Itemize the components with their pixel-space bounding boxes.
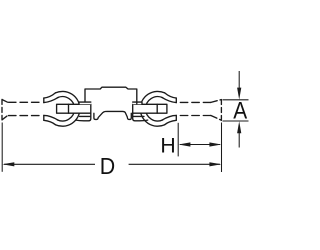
component: center bracket body bbox=[85, 87, 137, 104]
wire: right chain dashed bottom bbox=[180, 115, 211, 117]
arrowhead: A top (pointing down) bbox=[237, 88, 241, 100]
component: right pin collar step bbox=[133, 102, 142, 104]
wire: left jaw bottom outer edge bbox=[44, 120, 56, 124]
technical drawing: chain connecting link with dimensions A, H, D bbox=[0, 0, 250, 250]
wire: right flare top dashed bbox=[211, 100, 221, 103]
wire: right lower collar band bbox=[133, 115, 144, 117]
wire: dimension A lower leader bbox=[238, 128, 240, 148]
wire: right H/D extension line bbox=[221, 123, 223, 173]
svg-text:A: A bbox=[233, 97, 247, 124]
wire: right jaw tip face bottom bbox=[175, 115, 177, 120]
wire: H left extension line bbox=[177, 123, 179, 157]
wire: right flare bottom dashed bbox=[211, 116, 221, 121]
wire: right pin head division bbox=[156, 104, 158, 113]
wire: D dimension line left segment bbox=[4, 163, 95, 165]
wire: right lip curl bbox=[133, 113, 148, 121]
arrowhead: D left (pointing left) bbox=[2, 162, 14, 166]
component: left pin collar step bbox=[79, 102, 91, 104]
wire: right jaw tip face top bbox=[175, 98, 177, 103]
svg-text:D: D bbox=[100, 153, 115, 179]
wire: left jaw bottom inner edge bbox=[44, 115, 59, 120]
node: left eye inner bore circle bbox=[57, 97, 74, 121]
wire: right chain dashed top bbox=[180, 101, 211, 103]
node: right eye outer boss circle bbox=[140, 91, 164, 126]
wire: right jaw bottom inner edge bbox=[162, 115, 177, 120]
svg-text:H: H bbox=[160, 135, 175, 158]
wire: right jaw top inner edge bbox=[162, 97, 177, 102]
node: left eye outer boss circle bbox=[55, 91, 79, 126]
wire: dimension A upper leader bbox=[238, 71, 240, 93]
wire: left chain dashed top bbox=[9, 101, 43, 103]
wire: left chain dashed bottom bbox=[9, 115, 43, 117]
arrowhead: H left (pointing left) bbox=[178, 142, 190, 146]
component: right pin bar (white fill erases circles behind) bbox=[133, 104, 167, 113]
wire: H dimension line bbox=[180, 144, 220, 146]
wire: dimension A top extension line bbox=[223, 99, 249, 101]
wire: right chain break cap (dashed) bbox=[220, 100, 222, 121]
wire: left pin head division bbox=[68, 104, 70, 113]
wire: right jaw top outer edge bbox=[165, 93, 177, 98]
arrowhead: A bottom (pointing up) bbox=[237, 121, 241, 133]
arrowhead: H right (pointing right) bbox=[209, 142, 221, 146]
wire: left jaw tip face top bbox=[43, 98, 45, 103]
wire: left collar step outline bbox=[79, 102, 91, 104]
wire: left chain break cap (dashed) bbox=[1, 99, 3, 120]
wire: left flare top dashed bbox=[2, 100, 7, 103]
wire: right collar step outline bbox=[133, 102, 142, 104]
wire: left jaw tip face bottom bbox=[43, 115, 45, 120]
wire: dimension A bottom extension line bbox=[223, 120, 249, 122]
wire: left jaw top inner edge bbox=[44, 97, 59, 102]
component: left pin bar (white fill erases circles behind) bbox=[57, 104, 91, 113]
wire: D dimension line right segment bbox=[129, 163, 220, 165]
wire: left lip curl bbox=[76, 113, 91, 121]
wire: left jaw top outer edge bbox=[44, 93, 56, 98]
wire: left flare bottom dashed bbox=[2, 116, 7, 120]
node: right eye inner bore circle bbox=[146, 97, 163, 121]
wire: right jaw bottom outer edge bbox=[165, 120, 177, 124]
component: bracket underside arch and feet bbox=[94, 111, 131, 119]
wire: left lower collar band bbox=[80, 115, 90, 117]
arrowhead: D right (pointing right) bbox=[209, 162, 221, 166]
wire: left D extension line bbox=[1, 123, 3, 172]
